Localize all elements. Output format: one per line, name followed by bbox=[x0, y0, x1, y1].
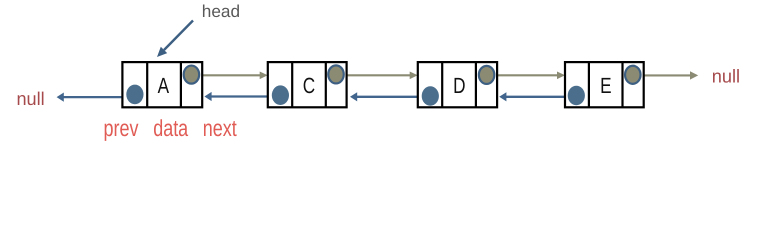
svg-text:head: head bbox=[202, 1, 240, 21]
node D box bbox=[418, 62, 497, 107]
svg-text:next: next bbox=[203, 115, 237, 141]
svg-text:null: null bbox=[16, 88, 44, 109]
wire prev C to A (blue) bbox=[204, 92, 280, 101]
wire prev E to D (blue) bbox=[499, 92, 576, 101]
svg-text:A: A bbox=[158, 73, 170, 98]
svg-text:null: null bbox=[712, 65, 740, 86]
wire next A to C (gray) bbox=[192, 72, 268, 80]
wire prev D to C (blue) bbox=[350, 92, 430, 101]
node A next dot (olive) bbox=[184, 66, 200, 84]
wire next C to D (gray) bbox=[336, 72, 418, 80]
wire next E to null-right (gray) bbox=[633, 71, 698, 79]
wire next D to E (gray) bbox=[487, 72, 565, 80]
node C box bbox=[268, 62, 347, 107]
node E prev dot (blue) bbox=[568, 86, 585, 106]
svg-text:D: D bbox=[453, 73, 465, 98]
node E box bbox=[565, 62, 644, 107]
svg-text:prev: prev bbox=[104, 115, 139, 141]
head arrow bbox=[157, 21, 193, 58]
node C next dot (olive) bbox=[328, 65, 344, 83]
node D prev dot (blue) bbox=[422, 86, 439, 106]
node A prev dot (blue) bbox=[126, 85, 143, 105]
node C prev dot (blue) bbox=[272, 85, 289, 105]
node D next dot (olive) bbox=[479, 66, 495, 84]
svg-text:data: data bbox=[153, 115, 188, 141]
node A box bbox=[122, 62, 202, 107]
svg-text:C: C bbox=[303, 73, 315, 98]
node E next dot (olive) bbox=[625, 66, 641, 84]
wire null-left from node A prev bbox=[57, 93, 135, 102]
svg-text:E: E bbox=[600, 73, 611, 98]
